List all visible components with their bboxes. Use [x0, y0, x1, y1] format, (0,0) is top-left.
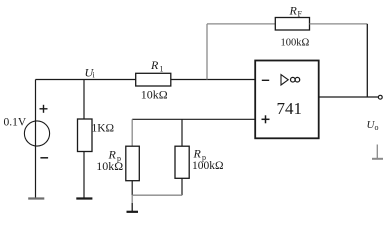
- wire Ui node down to 1K resistor: [83, 80, 85, 120]
- wire output horizontal: [319, 96, 379, 98]
- plus input marker: [262, 118, 270, 120]
- svg-text:R: R: [289, 4, 298, 18]
- wire feedback horizontal left: [207, 23, 275, 25]
- ground (below Rp network): [127, 195, 139, 212]
- svg-text:1: 1: [160, 65, 164, 74]
- wire left Rp bottom lead: [131, 181, 133, 196]
- wire right Rp top lead: [181, 119, 183, 146]
- svg-text:o: o: [375, 123, 379, 132]
- svg-text:F: F: [298, 10, 303, 19]
- svg-text:100kΩ: 100kΩ: [192, 160, 224, 172]
- resistor Rp 10k: [126, 146, 140, 181]
- wire source branch vertical: [35, 80, 37, 199]
- op-amp U1 741: [255, 61, 319, 139]
- wire non-inverting input horizontal: [132, 118, 255, 120]
- wire feedback tap vertical: [206, 24, 208, 80]
- resistor Rp 100k: [175, 146, 189, 178]
- svg-text:1KΩ: 1KΩ: [92, 122, 115, 134]
- svg-text:10kΩ: 10kΩ: [141, 88, 168, 102]
- ground (below 1K): [76, 197, 92, 199]
- wire main horizontal (Ui node to op-amp inverting input): [36, 79, 256, 81]
- resistor RF: [275, 18, 309, 31]
- wire right Rp bottom lead: [181, 178, 183, 195]
- resistor R1: [136, 73, 171, 86]
- minus input marker: [262, 79, 269, 81]
- ground (below source): [28, 197, 44, 199]
- svg-text:10kΩ: 10kΩ: [96, 159, 123, 173]
- wire 1K resistor to ground: [83, 152, 85, 199]
- svg-text:R: R: [193, 147, 202, 161]
- infinity symbol: [291, 77, 296, 82]
- svg-text:0.1V: 0.1V: [4, 117, 27, 129]
- svg-text:741: 741: [277, 99, 303, 118]
- gain triangle: [281, 75, 288, 85]
- wire left Rp top lead: [131, 119, 133, 146]
- svg-text:100kΩ: 100kΩ: [281, 38, 310, 49]
- wire bottom joining Rp resistors: [132, 194, 182, 196]
- output terminal: [378, 95, 382, 99]
- ground (reference below Uo): [372, 145, 383, 159]
- resistor 1K: [78, 119, 93, 152]
- voltage source V1 0.1V: [4, 105, 50, 158]
- wire feedback right vertical down to output: [366, 24, 368, 97]
- svg-text:R: R: [150, 58, 159, 72]
- wire feedback horizontal right: [310, 23, 368, 25]
